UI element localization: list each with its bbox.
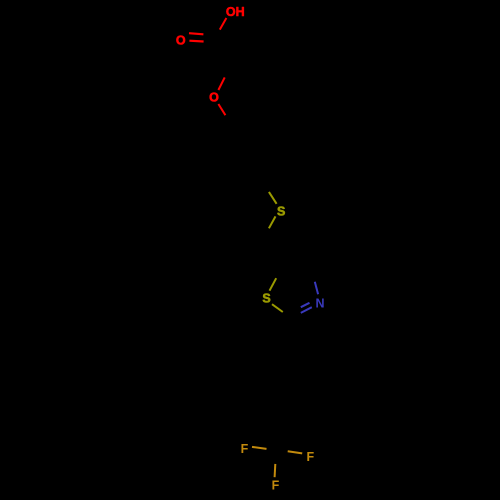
bond C2=O3 double lower line (O half) [189, 40, 203, 43]
svg-text:O: O [209, 91, 219, 105]
bond S6-C5thz up (S half) [270, 278, 277, 291]
bond N7=C2thz main line (N half) [301, 307, 312, 313]
bond F9-C (F half) [288, 451, 303, 453]
bond O4-Ar down (O half) [218, 104, 225, 115]
bond N7-C4thz up (N half) [315, 282, 318, 295]
svg-text:S: S [262, 292, 270, 306]
bond C2=O3 double upper line (O half) [189, 33, 203, 34]
svg-text:F: F [272, 479, 280, 493]
bond S5-Ar up (S half) [269, 192, 277, 204]
svg-text:S: S [277, 204, 285, 218]
bond S5-CH2 down (S half) [269, 216, 276, 228]
svg-text:OH: OH [226, 5, 245, 19]
bond F10-C (F half) [274, 464, 277, 477]
svg-text:F: F [241, 442, 249, 456]
svg-text:O: O [176, 34, 186, 48]
bond S6-C2thz down (S half) [272, 304, 283, 312]
bond F8-C (F half) [252, 447, 267, 449]
bond N7=C2thz inner line (N half) [301, 303, 310, 307]
svg-text:F: F [306, 450, 314, 464]
bond O4-CH2 up (O half) [218, 77, 224, 90]
svg-text:N: N [315, 297, 324, 311]
bond O1-C2 acid (O half) [220, 18, 227, 30]
